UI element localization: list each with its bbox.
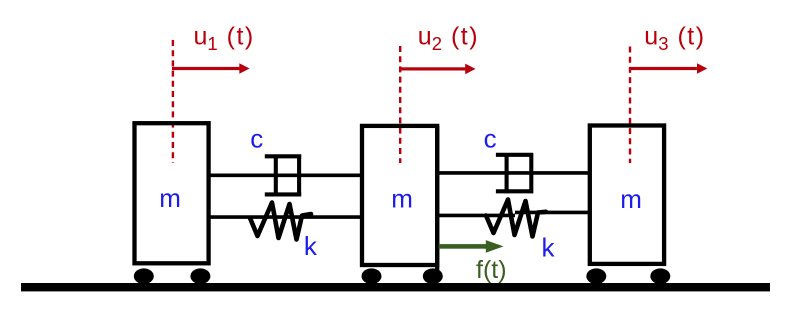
lower connecting rod mass2-mass3 left [436, 214, 515, 218]
svg-text:u1 (t): u1 (t) [194, 22, 255, 54]
mass block M1 [135, 123, 209, 263]
damper C2 [496, 153, 533, 193]
mass block M2 right wall overshoot [435, 126, 439, 271]
svg-text:u2 (t): u2 (t) [418, 22, 479, 54]
roller wheel M1 right [190, 268, 210, 284]
roller wheel M3 right [650, 268, 670, 284]
mass block M3 [590, 126, 664, 264]
damper C1 [265, 155, 301, 197]
svg-text:m: m [391, 184, 413, 214]
lower connecting rod mass1-mass2 [207, 215, 363, 219]
spring K1 [250, 203, 311, 240]
svg-text:c: c [484, 124, 497, 154]
svg-text:c: c [250, 124, 263, 154]
ground [21, 283, 770, 291]
svg-text:k: k [542, 232, 556, 262]
svg-text:k: k [304, 231, 318, 261]
svg-text:f(t): f(t) [476, 256, 507, 284]
arrow u3 [630, 63, 707, 74]
lower connecting rod mass2-mass3 right [515, 211, 591, 215]
svg-text:m: m [620, 184, 642, 214]
svg-text:m: m [159, 183, 181, 213]
dashed displacement axis node u2 [399, 46, 401, 163]
roller wheel M3 left [586, 268, 606, 284]
upper connecting rod mass1-mass2 [207, 174, 363, 178]
dashed displacement axis node u3 [629, 47, 631, 164]
roller wheel M2 left [362, 268, 382, 284]
spring K2 [486, 200, 546, 237]
arrow u1 [172, 63, 250, 74]
dashed displacement axis node u1 [172, 40, 174, 163]
svg-text:u3 (t): u3 (t) [644, 22, 705, 54]
arrow u2 [399, 64, 475, 75]
roller wheel M2 right [423, 268, 443, 284]
force arrow f(t) [439, 240, 504, 253]
upper connecting rod mass2-mass3 [436, 171, 591, 175]
roller wheel M1 left [134, 268, 154, 284]
mass block M2 [362, 126, 437, 265]
